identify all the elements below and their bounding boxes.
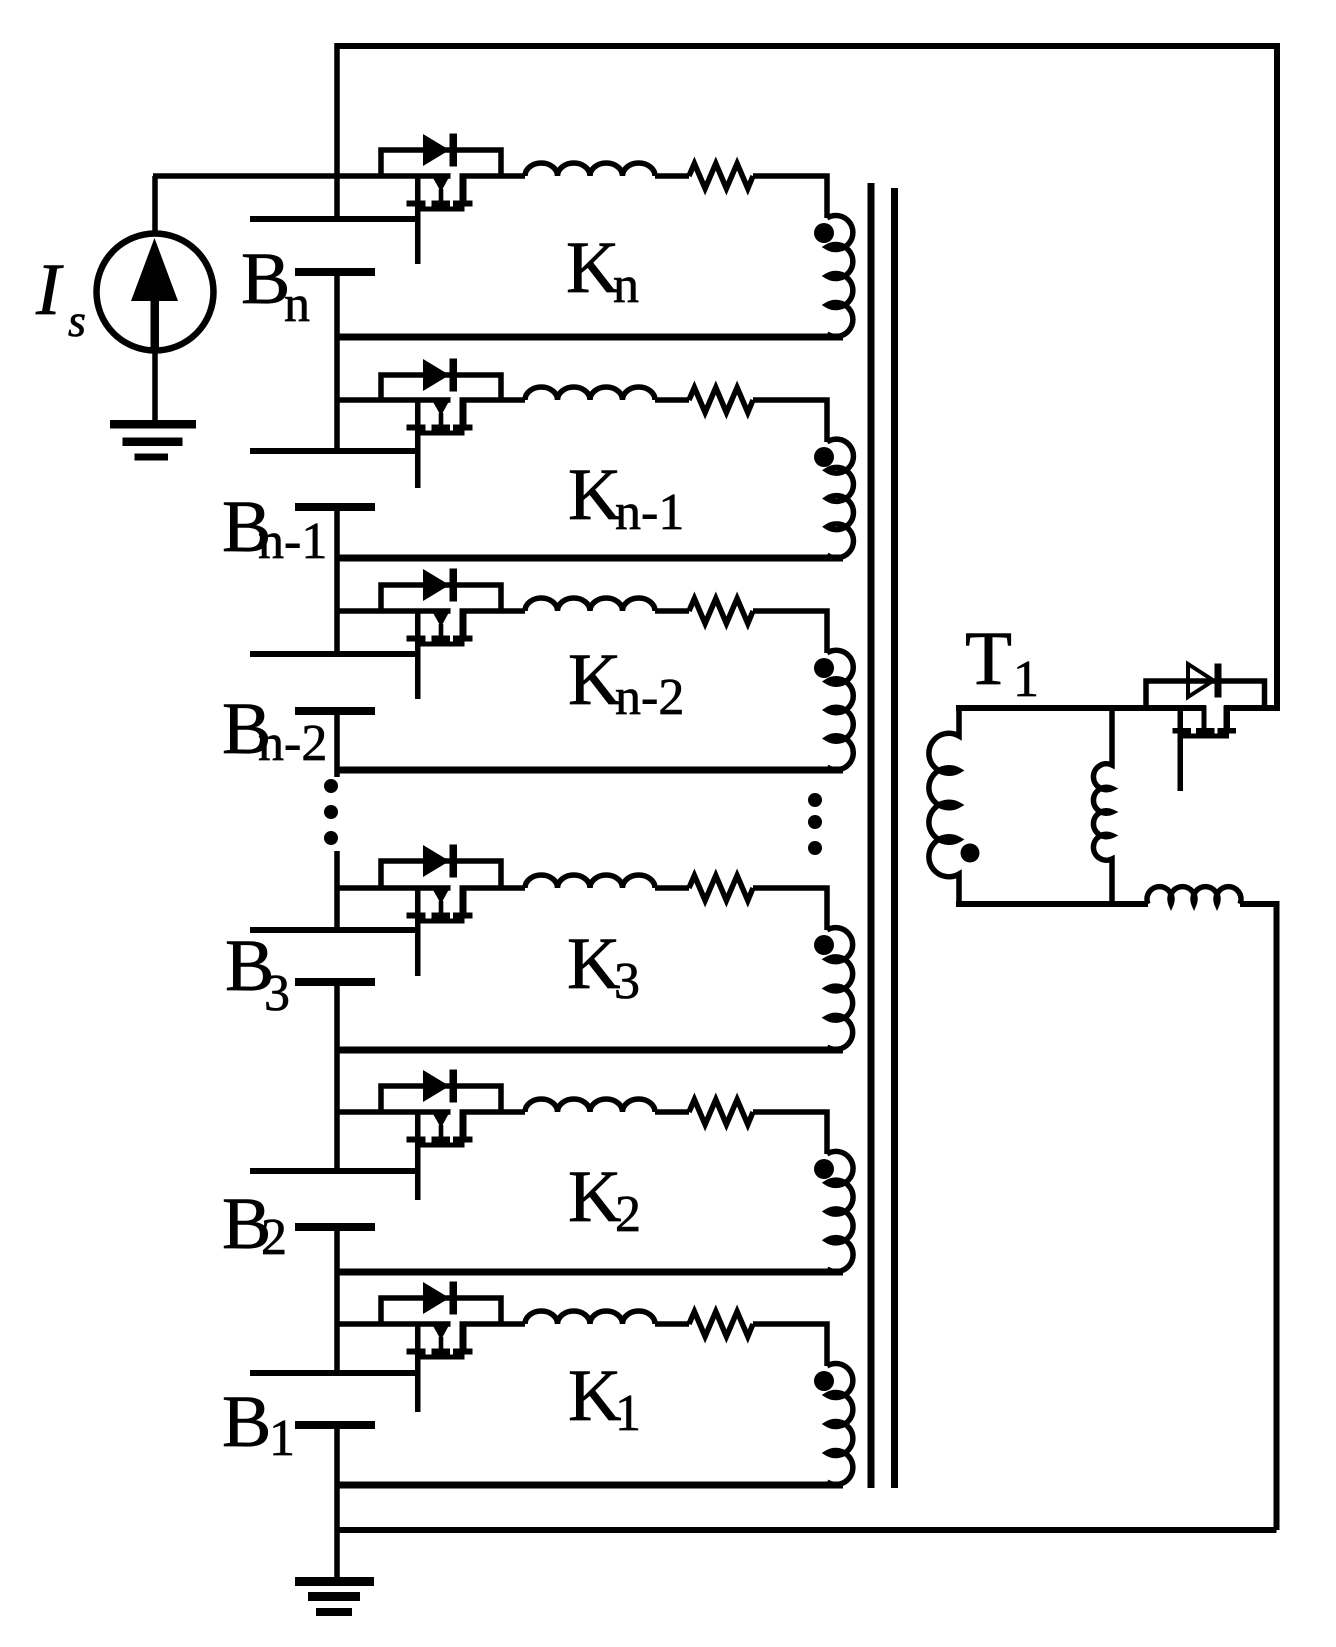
wire: T1 bottom rail bbox=[956, 901, 1148, 907]
svg-text:K: K bbox=[567, 923, 620, 1005]
battery Bn-1 bbox=[250, 451, 417, 507]
diode D-K1 (body diode) bbox=[423, 1282, 457, 1315]
battery B3 bbox=[250, 930, 417, 982]
MOSFET Q-Kn-1 body diode loop bbox=[381, 375, 501, 400]
battery Bn-2 bbox=[250, 654, 417, 711]
node: ellipsis dots on stack bus bbox=[324, 779, 338, 845]
transformer winding K1 (primary, shared core) bbox=[827, 1364, 853, 1485]
resistor R-Kn-1 bbox=[689, 388, 753, 413]
svg-text:n-2: n-2 bbox=[258, 715, 327, 772]
wire: T1 secondary top rail bbox=[956, 705, 1206, 711]
wire: Kn main branch from bus bbox=[153, 173, 339, 179]
ground: below current source bbox=[110, 420, 196, 461]
transformer T1 core line 2 bbox=[891, 188, 898, 1488]
wire: K1 winding return to bus bbox=[335, 1482, 844, 1489]
wire: resistor to winding K3 bbox=[753, 888, 827, 930]
inductor L-K1 bbox=[525, 1311, 655, 1324]
svg-text:B: B bbox=[241, 238, 290, 320]
svg-text:n-2: n-2 bbox=[615, 669, 684, 726]
wire: K3 MOSFET drain to inductor bbox=[460, 885, 526, 891]
wire: K1 MOSFET drain to inductor bbox=[460, 1321, 526, 1327]
diode D-Kn-1 (body diode) bbox=[423, 359, 457, 392]
inductor L-Kn bbox=[525, 163, 655, 176]
transistor Q-Kn-1 (MOSFET switch) bbox=[407, 398, 473, 489]
wire: resistor to winding K1 bbox=[753, 1324, 827, 1366]
svg-text:T: T bbox=[965, 615, 1012, 701]
transformer winding Kn (primary, shared core) bbox=[827, 216, 853, 337]
wire: resistor to winding Kn bbox=[753, 176, 827, 218]
svg-text:n-1: n-1 bbox=[615, 484, 684, 541]
wire: K3 winding return to bus bbox=[335, 1047, 844, 1054]
svg-text:1: 1 bbox=[615, 1385, 641, 1442]
inductor L-K2 bbox=[525, 1099, 655, 1112]
svg-text:I: I bbox=[35, 249, 64, 331]
resistor R-K3 bbox=[689, 876, 753, 901]
wire: inductor to resistor bbox=[655, 1109, 689, 1115]
transformer winding T1 secondary bbox=[929, 705, 959, 904]
current source Is bbox=[97, 234, 214, 351]
wire: battery stack bus segment top bbox=[334, 43, 340, 219]
node: polarity dot of winding K3 bbox=[814, 935, 834, 955]
wire: bus segment above B3 bbox=[334, 851, 340, 930]
wire: Kn-2 winding return to bus bbox=[335, 767, 844, 774]
svg-text:1: 1 bbox=[1013, 651, 1039, 708]
inductor: output filter bbox=[1147, 887, 1241, 904]
resistor R-Kn bbox=[689, 164, 753, 189]
node: polarity dot of winding Kn bbox=[814, 223, 834, 243]
svg-text:B: B bbox=[222, 1381, 271, 1463]
svg-text:n: n bbox=[613, 257, 639, 314]
svg-text:n-1: n-1 bbox=[258, 513, 327, 570]
wire: Kn-2 MOSFET drain to inductor bbox=[460, 608, 526, 614]
transistor Q-Kn-2 (MOSFET switch) bbox=[407, 609, 473, 700]
svg-text:3: 3 bbox=[614, 953, 640, 1010]
wire: bus segment B1 to ground bbox=[334, 1425, 340, 1578]
wire: right-hand vertical bus (top section) bbox=[1274, 43, 1280, 708]
svg-text:K: K bbox=[568, 1156, 621, 1238]
node: polarity dot of winding Kn-1 bbox=[814, 447, 834, 467]
transformer winding K3 (primary, shared core) bbox=[827, 928, 853, 1050]
diode D-K2 (body diode) bbox=[423, 1070, 457, 1103]
diode D-K3 (body diode) bbox=[423, 845, 457, 878]
battery B1 bbox=[250, 1373, 417, 1425]
inductor: T1 magnetizing winding (middle) bbox=[1093, 705, 1112, 904]
wire: Kn winding return to bus bbox=[335, 334, 844, 341]
MOSFET Q-K1 body diode loop bbox=[381, 1298, 501, 1324]
wire: top bus from battery stack top to output rectifier bbox=[335, 43, 1278, 49]
wire: K3 main branch from bus bbox=[335, 885, 451, 891]
wire: right-hand vertical bus (bottom section) bbox=[1274, 901, 1280, 1530]
node: ellipsis dots next to windings bbox=[808, 793, 822, 855]
inductor L-K3 bbox=[525, 875, 655, 888]
svg-text:s: s bbox=[68, 295, 86, 346]
diode D-Kn-2 (body diode) bbox=[423, 569, 457, 602]
node: polarity dot of winding K2 bbox=[814, 1159, 834, 1179]
svg-text:K: K bbox=[566, 227, 619, 309]
wire: K2 MOSFET drain to inductor bbox=[460, 1109, 526, 1115]
svg-text:1: 1 bbox=[269, 1410, 295, 1467]
wire: output inductor to right bus bbox=[1240, 901, 1279, 907]
MOSFET Q-Kn-2 body diode loop bbox=[381, 585, 501, 611]
wire: inductor to resistor bbox=[655, 608, 689, 614]
wire: K2 main branch from bus bbox=[335, 1109, 451, 1115]
transformer winding Kn-2 (primary, shared core) bbox=[827, 650, 853, 769]
transformer winding Kn-1 (primary, shared core) bbox=[827, 439, 853, 558]
node: polarity dot of winding K1 bbox=[814, 1371, 834, 1391]
resistor R-Kn-2 bbox=[689, 599, 753, 624]
wire: Kn-1 MOSFET drain to inductor bbox=[460, 397, 526, 403]
diode D-out (outline) bbox=[1188, 664, 1222, 698]
wire: current source to Kn node bbox=[152, 176, 158, 236]
wire: Kn MOSFET drain to inductor bbox=[460, 173, 526, 179]
wire: bus segment below Bn-2 bbox=[334, 711, 340, 777]
svg-text:n: n bbox=[284, 276, 310, 333]
transistor Q-K3 (MOSFET switch) bbox=[407, 886, 473, 977]
wire: resistor to winding Kn-1 bbox=[753, 400, 827, 442]
wire: bus segment Bn to Bn-1 bbox=[334, 272, 340, 451]
inductor L-Kn-2 bbox=[525, 598, 655, 611]
wire: Kn-1 main branch from bus bbox=[335, 397, 451, 403]
MOSFET Q-Kn body diode loop bbox=[381, 150, 501, 176]
wire: K2 winding return to bus bbox=[335, 1269, 844, 1276]
wire: bus segment Bn-1 to Bn-2 bbox=[334, 507, 340, 654]
wire: inductor to resistor bbox=[655, 397, 689, 403]
wire: Kn-2 main branch from bus bbox=[335, 608, 451, 614]
transistor Q-out (output MOSFET) bbox=[1173, 706, 1237, 792]
resistor R-K1 bbox=[689, 1312, 753, 1337]
svg-text:K: K bbox=[568, 1355, 621, 1437]
ground: battery stack bottom bbox=[295, 1577, 374, 1616]
inductor L-Kn-1 bbox=[525, 387, 655, 400]
wire: K1 main branch from bus bbox=[335, 1321, 451, 1327]
wire: current source lower lead bbox=[152, 349, 158, 422]
battery B2 bbox=[250, 1171, 417, 1227]
svg-text:2: 2 bbox=[615, 1186, 641, 1243]
transistor Q-K2 (MOSFET switch) bbox=[407, 1110, 473, 1201]
svg-text:K: K bbox=[568, 454, 621, 536]
svg-text:2: 2 bbox=[261, 1209, 287, 1266]
MOSFET Q-K2 body diode loop bbox=[381, 1086, 501, 1112]
wire: resistor to winding K2 bbox=[753, 1112, 827, 1154]
battery Bn bbox=[250, 219, 417, 272]
wire: bottom return bus bbox=[335, 1527, 1277, 1533]
node: polarity dot of winding Kn-2 bbox=[814, 658, 834, 678]
MOSFET Q-out body diode loop bbox=[1146, 681, 1265, 708]
node: polarity dot of T1 secondary bbox=[961, 844, 980, 863]
svg-text:K: K bbox=[568, 639, 621, 721]
MOSFET Q-K3 body diode loop bbox=[381, 861, 501, 888]
wire: resistor to winding Kn-2 bbox=[753, 611, 827, 653]
wire: bus segment B2 to B1 bbox=[334, 1227, 340, 1373]
transistor Q-Kn (MOSFET switch) bbox=[407, 174, 473, 265]
svg-text:3: 3 bbox=[264, 965, 290, 1022]
transformer T1 core line 1 bbox=[868, 183, 875, 1488]
wire: inductor to resistor bbox=[655, 1321, 689, 1327]
wire: bus segment B3 to B2 bbox=[334, 982, 340, 1171]
wire: inductor to resistor bbox=[655, 173, 689, 179]
transformer winding K2 (primary, shared core) bbox=[827, 1151, 853, 1271]
resistor R-K2 bbox=[689, 1100, 753, 1125]
wire: inductor to resistor bbox=[655, 885, 689, 891]
diode D-Kn (body diode) bbox=[423, 134, 457, 167]
transistor Q-K1 (MOSFET switch) bbox=[407, 1322, 473, 1413]
wire: Kn-1 winding return to bus bbox=[335, 555, 844, 562]
